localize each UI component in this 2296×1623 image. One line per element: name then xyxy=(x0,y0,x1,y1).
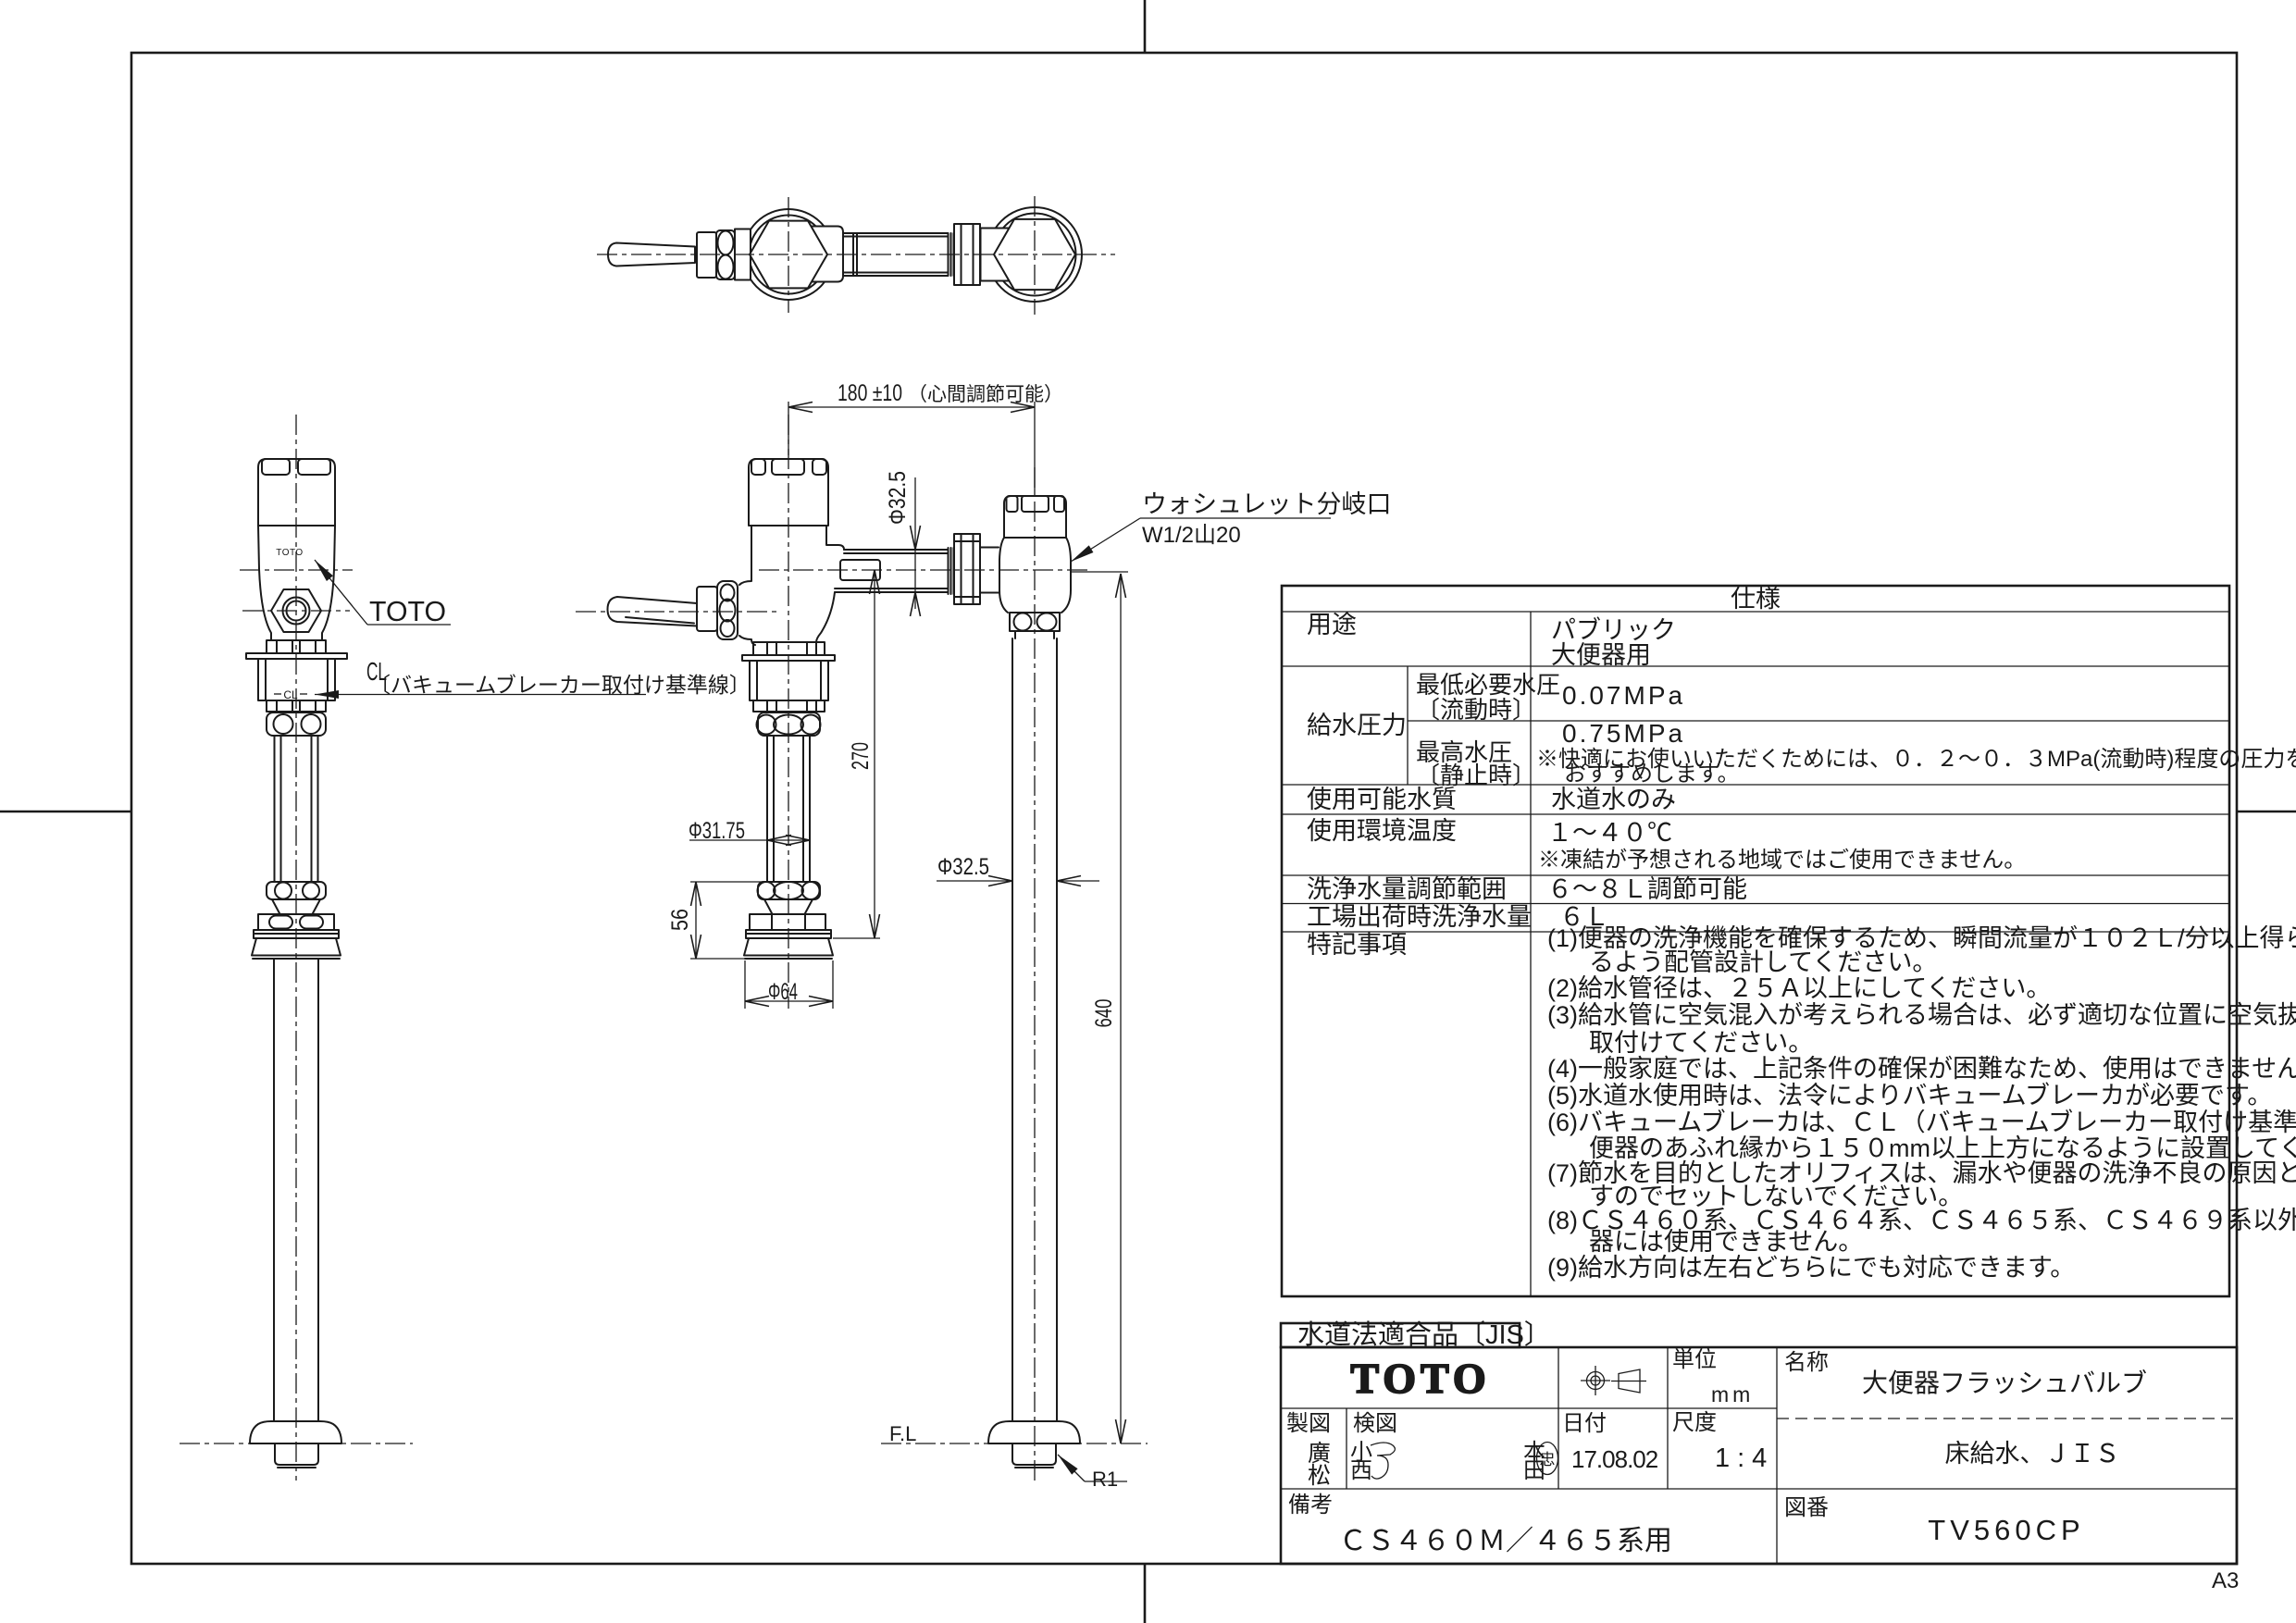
svg-text:製図: 製図 xyxy=(1286,1411,1331,1436)
outlet pipe to spud (front) xyxy=(844,549,948,551)
upper union coupling (front) xyxy=(758,712,820,736)
vacuum breaker slotted ring (front) xyxy=(753,700,825,712)
spud bell (left) xyxy=(252,938,341,956)
floor flange dome (front) xyxy=(988,1421,1080,1443)
table outer border xyxy=(1282,586,2229,1296)
svg-text:180 ±10: 180 ±10 xyxy=(838,380,902,406)
svg-text:仕様: 仕様 xyxy=(1731,585,1781,613)
spud taper (left) xyxy=(272,899,279,913)
bottom center registration tick xyxy=(1144,1564,1147,1623)
svg-text:TOTO: TOTO xyxy=(369,595,446,627)
svg-text:Φ64: Φ64 xyxy=(768,979,798,1005)
svg-text:ウォシュレット分岐口: ウォシュレット分岐口 xyxy=(1142,490,1391,518)
svg-text:工場出荷時洗浄水量: 工場出荷時洗浄水量 xyxy=(1307,903,1532,931)
adjusting screw nub (front) xyxy=(840,560,880,580)
dim Φ32.5 outlet pipe xyxy=(914,477,916,609)
svg-text:A3: A3 xyxy=(2212,1568,2239,1593)
title block outer border xyxy=(1281,1347,2237,1564)
lower union coupling (left) xyxy=(267,882,326,899)
table row lines xyxy=(1282,611,2229,613)
svg-text:W1/2山20: W1/2山20 xyxy=(1142,523,1241,548)
below-floor spigot (left) xyxy=(275,1443,318,1465)
svg-text:大便器フラッシュバルブ: 大便器フラッシュバルブ xyxy=(1862,1369,2147,1397)
union nut (top) xyxy=(954,224,980,285)
third angle projection symbol xyxy=(1581,1366,1646,1395)
spud hex nut (left) xyxy=(258,914,334,930)
spud flange plate (front) xyxy=(746,930,831,938)
svg-text:(5)水道水使用時は、法令によりバキュームブレーカが必要です: (5)水道水使用時は、法令によりバキュームブレーカが必要です。 xyxy=(1547,1082,2272,1109)
svg-text:名称: 名称 xyxy=(1784,1350,1829,1375)
spud flange plate (left) xyxy=(254,930,339,938)
svg-text:0.07MPa: 0.07MPa xyxy=(1562,681,1685,710)
lever boss hexagon (left) xyxy=(271,589,321,632)
supply pipe (front) xyxy=(1011,638,1013,1421)
base flange plate (front) xyxy=(742,655,835,661)
svg-text:(2)給水管径は、２５Ａ以上にしてください。: (2)給水管径は、２５Ａ以上にしてください。 xyxy=(1547,974,2051,1002)
lower union coupling (front) xyxy=(758,882,820,899)
base slotted ring (left) xyxy=(267,640,326,653)
vacuum breaker body (front) xyxy=(750,661,828,700)
svg-text:TOTO: TOTO xyxy=(276,548,303,558)
valve body inner circle (top) xyxy=(750,216,828,294)
title block vertical lines xyxy=(1558,1347,1559,1489)
right center registration tick xyxy=(2237,811,2296,813)
svg-text:器には使用できません。: 器には使用できません。 xyxy=(1589,1228,1863,1256)
svg-text:1:4: 1:4 xyxy=(1715,1443,1774,1473)
svg-text:R1: R1 xyxy=(1092,1468,1118,1491)
svg-text:mm: mm xyxy=(1711,1382,1754,1406)
svg-text:ＣＳ４６０Ｍ／４６５系用: ＣＳ４６０Ｍ／４６５系用 xyxy=(1339,1526,1672,1556)
svg-text:図番: 図番 xyxy=(1784,1495,1829,1520)
dim 640 xyxy=(1071,571,1128,573)
svg-text:６～８Ｌ調節可能: ６～８Ｌ調節可能 xyxy=(1547,875,1747,903)
below-floor spigot (front) xyxy=(1012,1443,1056,1465)
svg-text:0.75MPa: 0.75MPa xyxy=(1562,719,1685,748)
svg-text:用途: 用途 xyxy=(1307,611,1357,638)
svg-text:※凍結が予想される地域ではご使用できません。: ※凍結が予想される地域ではご使用できません。 xyxy=(1538,848,2026,873)
dim 270 xyxy=(833,937,880,939)
svg-text:水道法適合品〔JIS〕: 水道法適合品〔JIS〕 xyxy=(1297,1319,1551,1350)
svg-text:〔流動時〕: 〔流動時〕 xyxy=(1416,696,1536,724)
spud fitting body (front) xyxy=(999,538,1008,613)
valve body trunk (front) xyxy=(739,526,751,585)
flush tube (front) xyxy=(766,736,768,882)
JIS compliance label box xyxy=(1281,1323,1520,1347)
svg-text:検図: 検図 xyxy=(1353,1411,1397,1436)
svg-text:17.08.02: 17.08.02 xyxy=(1571,1445,1658,1473)
svg-text:床給水、ＪＩＳ: 床給水、ＪＩＳ xyxy=(1945,1440,2120,1468)
spud outer circle (top) xyxy=(987,207,1082,302)
centerlines overlay xyxy=(180,196,1148,1481)
lever boss block (top) xyxy=(735,229,751,280)
valve body outer circle (top) xyxy=(743,209,834,300)
svg-text:備考: 備考 xyxy=(1288,1493,1333,1518)
svg-text:TOTO: TOTO xyxy=(1350,1355,1490,1402)
spud fitting cap (front) xyxy=(1004,496,1066,538)
top center registration tick xyxy=(1144,0,1147,53)
svg-text:F.L: F.L xyxy=(889,1422,916,1445)
spud hexagon (top) xyxy=(994,219,1075,290)
svg-text:松: 松 xyxy=(1308,1463,1331,1489)
svg-text:洗浄水量調節範囲: 洗浄水量調節範囲 xyxy=(1307,875,1507,903)
supply pipe behind (left) xyxy=(273,959,275,1421)
vacuum breaker slotted ring (left) xyxy=(267,700,326,712)
svg-text:大便器用: 大便器用 xyxy=(1551,641,1651,669)
valve cap (left) xyxy=(258,459,335,526)
base flange plate (left) xyxy=(246,653,347,659)
svg-text:（心間調節可能）: （心間調節可能） xyxy=(908,384,1063,405)
svg-text:〔バキュームブレーカー取付け基準線〕: 〔バキュームブレーカー取付け基準線〕 xyxy=(369,673,751,697)
svg-text:水道水のみ: 水道水のみ xyxy=(1551,786,1676,813)
valve body trunk (left) xyxy=(258,526,271,640)
svg-text:(9)給水方向は左右どちらにでも対応できます。: (9)給水方向は左右どちらにでも対応できます。 xyxy=(1547,1254,2075,1282)
flush tube (left) xyxy=(274,736,276,882)
left center registration tick xyxy=(0,811,131,813)
svg-text:西: 西 xyxy=(1350,1458,1372,1483)
svg-text:パブリック: パブリック xyxy=(1551,616,1676,644)
lever coupling ring (front) xyxy=(717,581,738,639)
pipe thread (top) xyxy=(948,233,949,276)
svg-text:(3)給水管に空気混入が考えられる場合は、必ず適切な位置に空: (3)給水管に空気混入が考えられる場合は、必ず適切な位置に空気抜き弁を xyxy=(1547,1001,2296,1029)
lever socket (front) xyxy=(697,587,717,631)
svg-text:(6)バキュームブレーカは、ＣＬ（バキュームブレーカー取付け: (6)バキュームブレーカは、ＣＬ（バキュームブレーカー取付け基準線）が xyxy=(1547,1109,2296,1136)
dim 56 xyxy=(690,881,763,883)
exposed pipe segment (front) xyxy=(980,547,999,549)
fitting neck (front) xyxy=(1014,631,1016,638)
valve hexagon (top) xyxy=(750,221,827,289)
svg-text:Φ32.5: Φ32.5 xyxy=(885,471,911,525)
lever socket (top) xyxy=(697,232,716,278)
valve cap (front) xyxy=(749,459,828,526)
svg-text:るよう配管設計してください。: るよう配管設計してください。 xyxy=(1589,948,1937,976)
svg-text:Φ32.5: Φ32.5 xyxy=(937,854,989,880)
svg-text:取付けてください。: 取付けてください。 xyxy=(1589,1029,1813,1057)
spud fitting coupling ring (front) xyxy=(1010,613,1060,631)
svg-text:尺度: 尺度 xyxy=(1672,1410,1717,1435)
dim 180±10 xyxy=(788,402,789,455)
table column lines xyxy=(1530,612,1532,1296)
svg-text:最低必要水圧: 最低必要水圧 xyxy=(1416,671,1560,699)
lever handle (front) xyxy=(608,597,698,626)
svg-text:(4)一般家庭では、上記条件の確保が困難なため、使用はできま: (4)一般家庭では、上記条件の確保が困難なため、使用はできません。 xyxy=(1547,1055,2296,1083)
svg-text:特記事項: 特記事項 xyxy=(1307,931,1407,959)
spud connector body (top) xyxy=(981,229,1011,281)
pipe thread (front) xyxy=(948,548,949,594)
spud inner circle (top) xyxy=(994,214,1076,296)
svg-text:640: 640 xyxy=(1091,999,1117,1028)
svg-text:便器のあふれ縁から１５０mm以上上方になるように設置してくだ: 便器のあふれ縁から１５０mm以上上方になるように設置してください。 xyxy=(1589,1134,2296,1162)
svg-text:１～４０℃: １～４０℃ xyxy=(1547,819,1672,847)
svg-text:TV560CP: TV560CP xyxy=(1928,1514,2084,1546)
title block horizontal lines xyxy=(1281,1407,1777,1409)
svg-text:使用環境温度: 使用環境温度 xyxy=(1307,817,1457,845)
base slotted ring (front) xyxy=(753,642,825,655)
svg-text:給水圧力: 給水圧力 xyxy=(1307,712,1407,739)
svg-text:忠: 忠 xyxy=(1540,1451,1556,1468)
floor flange dome (left) xyxy=(250,1421,341,1443)
lever boss circles (left) xyxy=(283,598,310,625)
union nut at spud fitting (front) xyxy=(954,534,980,604)
upper union coupling (left) xyxy=(267,712,326,736)
dim Φ64 xyxy=(744,960,746,1009)
pipe joint lines (top) xyxy=(852,233,854,276)
svg-text:単位: 単位 xyxy=(1672,1347,1717,1372)
spud bell (front) xyxy=(744,938,833,956)
lever coupling ring (top) xyxy=(716,230,735,279)
svg-text:270: 270 xyxy=(848,742,874,770)
outlet body block (top) xyxy=(807,227,843,282)
lever handle (top) xyxy=(608,243,695,266)
outlet pipe (top) xyxy=(843,232,948,234)
spud taper (front) xyxy=(764,899,772,913)
svg-text:56: 56 xyxy=(667,909,693,931)
svg-text:日付: 日付 xyxy=(1562,1411,1607,1436)
svg-text:おすすめします。: おすすめします。 xyxy=(1564,762,1740,787)
spud hex nut (front) xyxy=(750,914,825,930)
vacuum breaker body (left) xyxy=(258,659,335,700)
svg-text:使用可能水質: 使用可能水質 xyxy=(1307,786,1457,813)
